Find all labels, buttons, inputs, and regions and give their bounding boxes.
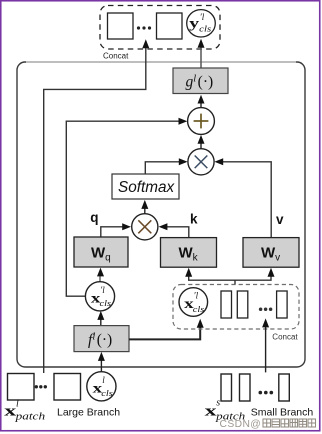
thick wire f -> concat circle [129,325,200,340]
wire softmax -> times [145,162,180,174]
arrow qk-times -> softmax [144,207,146,214]
node y'l_cls circle [187,10,216,37]
wire Wv -> times [222,162,272,238]
svg-text:cls: cls [199,24,211,33]
node x'l_cls circle (in concat box) [179,288,208,317]
arrow bottom x^l_cls -> f [100,359,102,372]
svg-text:Large Branch: Large Branch [57,406,120,418]
wire Wk -> qk-times [165,227,189,238]
svg-text:patch: patch [14,412,45,423]
svg-text:cls: cls [100,299,112,308]
node plus circle [188,108,215,135]
wire A arrowhead [142,39,149,48]
node x^l_cls circle (bottom) [87,372,116,401]
small branch token rect 1 [221,374,232,401]
large branch token square 2 [54,374,81,401]
token square 2 [157,13,183,39]
watermark CSDN [220,419,316,430]
ellipsis dots large branch [35,385,38,388]
node times circle (attn x v) [188,149,214,175]
arrow times -> plus [200,140,202,149]
node x'l_cls circle (left) [85,282,114,311]
token square 1 [108,13,134,39]
arrow g -> concat [200,44,202,68]
ellipsis dots small branch [259,391,263,395]
outer module box [17,62,305,367]
svg-text:′l: ′l [100,285,105,295]
small token rect 3 [277,291,288,318]
bottom dashed concat box [173,285,299,330]
large branch token square 1 [8,374,35,401]
svg-text:Softmax: Softmax [118,179,175,196]
svg-text:′l: ′l [194,291,199,301]
small token rect 2 [237,291,248,318]
arrow plus -> g [200,100,202,108]
svg-text:Concat: Concat [103,52,129,61]
outer box top edge (lighter) [26,61,296,63]
svg-text:v: v [276,212,284,227]
block f^l(.) [74,326,129,352]
svg-text:Concat: Concat [272,333,298,342]
small branch token rect 2 [240,374,251,401]
svg-text:cls: cls [193,305,205,314]
branch wire to Wk and Wv [189,274,271,281]
svg-text:Small Branch: Small Branch [251,406,314,418]
svg-text:fl(·): fl(·) [88,331,112,348]
stub dashed box -> branch wires [234,280,236,284]
block Wk [161,238,217,268]
svg-text:y: y [189,15,199,30]
svg-text:q: q [90,210,98,225]
node qk times circle [132,214,158,240]
wire B: residual from x'cls circle to plus [66,121,181,296]
arrow f -> x'cls [100,318,102,326]
small branch token rect 3 [279,374,290,401]
block Softmax [112,174,179,199]
svg-text:CSDN@: CSDN@ [220,419,262,430]
arrow small-branch patches -> concat dots [265,325,267,372]
arrow x'cls -> Wq [99,275,101,282]
wire A: large-branch patch tokens bypass to top concat [44,43,146,374]
block Wv [243,238,299,268]
label x^l_patch [4,398,45,422]
ellipsis dots top [137,26,140,29]
small token rect 1 [221,291,232,318]
label x^s_patch [205,397,246,422]
svg-text:cls: cls [101,389,113,398]
svg-text:k: k [190,212,198,227]
top concat dashed box [100,6,220,50]
svg-text:′l: ′l [200,12,205,22]
block g^l(.) [173,68,228,94]
block Wq [74,237,128,267]
wire Wq -> qk-times [101,227,124,237]
ellipsis dots in concat box [259,308,263,312]
svg-text:l: l [16,398,19,409]
svg-text:s: s [216,397,220,408]
svg-text:gl(·): gl(·) [186,73,214,90]
